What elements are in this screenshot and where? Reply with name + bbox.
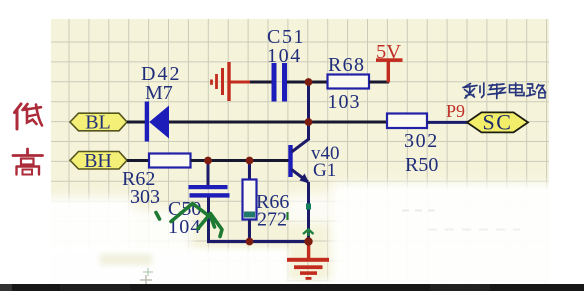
ground GND2 (red earth) bbox=[287, 242, 329, 280]
wire R68 to 5V bbox=[369, 81, 389, 84]
svg-text:P9: P9 bbox=[446, 101, 465, 121]
wire R66 to bottom wire bbox=[248, 220, 251, 242]
wire red-to-C51 left plate bbox=[250, 81, 272, 84]
annotation text low bbox=[15, 104, 43, 129]
svg-text:103: 103 bbox=[328, 91, 361, 113]
svg-text:5V: 5V bbox=[376, 41, 401, 63]
diode D42 bbox=[145, 102, 169, 142]
junction node F dot bbox=[304, 237, 312, 245]
capacitor C51 bbox=[272, 63, 288, 102]
svg-text:302: 302 bbox=[404, 130, 439, 152]
port BH bbox=[70, 152, 127, 170]
junction node A dot bbox=[305, 78, 313, 86]
resistor R62 bbox=[149, 154, 191, 168]
wire GND1 to C51 (red segment) bbox=[229, 81, 251, 84]
resistor R50 (302) bbox=[387, 114, 427, 129]
teal artifact in R66 bbox=[244, 212, 255, 218]
svg-text:BH: BH bbox=[84, 150, 112, 172]
wire node B to R50 bbox=[309, 121, 388, 124]
capacitor C50 bbox=[189, 185, 230, 198]
junction node C dot bbox=[204, 157, 212, 165]
annotation text brake-circuit bbox=[463, 83, 546, 99]
wire bottom rail bbox=[207, 240, 310, 243]
svg-text:R50: R50 bbox=[405, 154, 438, 176]
wire node C to C50 bbox=[207, 161, 210, 186]
port SC bbox=[467, 112, 528, 132]
svg-text:104: 104 bbox=[267, 45, 302, 67]
wire BL to D42 bbox=[127, 121, 146, 124]
svg-text:SC: SC bbox=[483, 110, 513, 135]
junction node B dot bbox=[305, 118, 313, 126]
ground GND1 (red earth, rotated) bbox=[212, 62, 230, 101]
wire BH to R62 bbox=[127, 159, 150, 162]
port BL bbox=[70, 113, 127, 131]
wire R50 to SC bbox=[427, 121, 468, 124]
wire C51 to node A bbox=[287, 81, 309, 84]
wire C50 to bottom wire bbox=[207, 197, 210, 243]
junction node D dot bbox=[246, 157, 254, 165]
svg-text:303: 303 bbox=[130, 186, 160, 208]
wire node A to R68 bbox=[309, 81, 329, 84]
svg-text:BL: BL bbox=[85, 112, 111, 134]
svg-text:G1: G1 bbox=[313, 160, 336, 181]
junction node E dot bbox=[246, 238, 254, 246]
wire node A to node B (vertical bus) bbox=[307, 82, 310, 122]
svg-text:272: 272 bbox=[257, 209, 287, 231]
wire D42 to node B bbox=[169, 121, 309, 124]
resistor R66 bbox=[243, 180, 257, 220]
svg-text:R68: R68 bbox=[328, 54, 365, 76]
resistor R68 bbox=[328, 75, 370, 89]
annotation text high bbox=[13, 149, 43, 175]
wire emitter down bbox=[307, 182, 310, 242]
transistor v40 G1 bbox=[288, 122, 309, 184]
power 5V symbol bbox=[376, 58, 403, 82]
wire R62 to Q base bbox=[191, 159, 290, 162]
wire node D to R66 bbox=[248, 161, 251, 181]
svg-text:M7: M7 bbox=[145, 82, 173, 104]
